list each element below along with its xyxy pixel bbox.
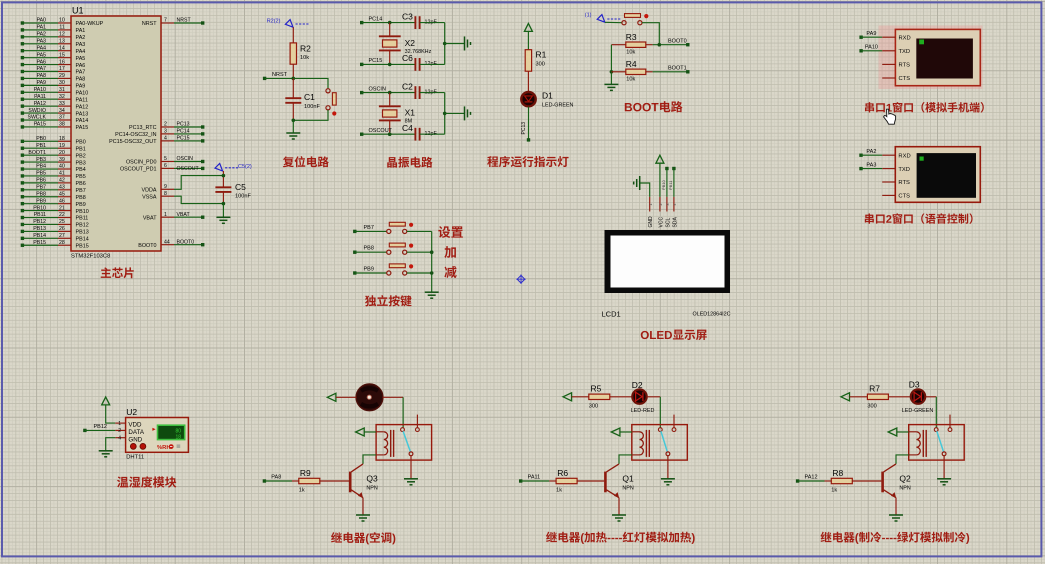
svg-text:1k: 1k — [831, 487, 837, 493]
svg-text:PB9: PB9 — [364, 266, 374, 272]
svg-text:PA11: PA11 — [528, 475, 541, 481]
svg-text:OSCIN: OSCIN — [369, 86, 386, 92]
wire coil to Q1 collector — [619, 455, 632, 464]
svg-text:PA4: PA4 — [37, 45, 47, 51]
svg-text:PB12: PB12 — [76, 223, 89, 229]
svg-text:2: 2 — [118, 428, 121, 434]
pin RTS stub — [882, 63, 895, 65]
wire rail to ground — [445, 112, 465, 114]
junction VDDA-C5 — [222, 174, 226, 178]
wire D1 to PC13 — [528, 107, 530, 140]
svg-text:PB9: PB9 — [36, 198, 46, 204]
svg-text:C1: C1 — [304, 92, 315, 102]
crystal X2 32.768KHz — [379, 23, 432, 65]
pin TXD stub — [882, 168, 895, 170]
virtual terminal 串口2 frame — [895, 147, 980, 203]
selection highlight — [879, 26, 983, 90]
label 温湿度模块 — [117, 477, 128, 488]
svg-text:28: 28 — [59, 240, 65, 246]
svg-text:PA10: PA10 — [865, 45, 878, 51]
svg-text:PB10: PB10 — [661, 179, 666, 190]
pin SCL OLED — [665, 197, 671, 228]
svg-text:LED-GREEN: LED-GREEN — [542, 103, 574, 109]
push button BOOT0 — [622, 21, 626, 25]
pin PB15 (28) — [21, 240, 89, 250]
ground Q3 — [356, 514, 370, 516]
wire arrow to motor — [336, 396, 356, 398]
IC U1 STM32F103C8 body — [71, 16, 161, 251]
node BOOT1 terminal — [668, 65, 690, 73]
svg-text:29: 29 — [59, 73, 65, 79]
relay RL2 coil — [632, 430, 650, 457]
label 晶振电路 — [387, 157, 397, 167]
svg-text:Q3: Q3 — [366, 474, 378, 484]
svg-text:PA9: PA9 — [76, 84, 86, 90]
relay RL3 box — [909, 425, 965, 461]
svg-text:PC14: PC14 — [369, 16, 383, 22]
label 加 — [444, 246, 456, 258]
node SDA terminal — [672, 167, 675, 170]
wire PC14 row — [362, 22, 416, 24]
svg-text:PA7: PA7 — [76, 70, 86, 76]
junction OSCIN — [388, 91, 392, 95]
svg-text:18: 18 — [59, 136, 65, 142]
svg-text:PA4: PA4 — [76, 49, 86, 55]
ground reset — [286, 132, 300, 134]
power arrow DHT11 — [102, 397, 110, 405]
node PC13 terminal — [527, 138, 530, 141]
svg-text:TXD: TXD — [898, 167, 910, 173]
svg-text:RXD: RXD — [898, 153, 910, 159]
svg-text:RTS: RTS — [898, 180, 910, 186]
svg-text:TXD: TXD — [899, 49, 911, 55]
ground C5 — [216, 216, 230, 218]
pin RTS stub — [882, 181, 895, 183]
pin PA5 (15) — [21, 52, 86, 62]
svg-text:(1): (1) — [585, 13, 592, 19]
pin PB11 (22) — [21, 212, 89, 222]
wire probe to button — [605, 21, 622, 23]
svg-text:45: 45 — [59, 191, 65, 197]
svg-text:PC15: PC15 — [369, 58, 383, 64]
motor terminal arrow — [327, 393, 336, 401]
node PB9 terminal — [353, 266, 387, 274]
svg-text:DHT11: DHT11 — [126, 454, 144, 460]
svg-text:OSCOUT: OSCOUT — [177, 166, 200, 172]
wire Q3 emitter to ground — [362, 498, 364, 515]
junction OSCOUT — [388, 132, 392, 136]
mouse cursor — [884, 109, 896, 124]
transistor Q3 NPN — [350, 464, 378, 498]
pin PC15 (4) — [109, 136, 204, 146]
svg-text:1: 1 — [649, 204, 653, 206]
resistor R5 300 — [572, 384, 632, 410]
svg-text:PB8: PB8 — [364, 246, 374, 252]
svg-text:NPN: NPN — [899, 486, 910, 492]
svg-text:BOOT0: BOOT0 — [177, 239, 195, 245]
node SCL terminal — [665, 167, 668, 170]
pin PB13 (26) — [21, 226, 89, 236]
wire motor to relay — [383, 396, 403, 398]
relay RL1 coil — [376, 430, 394, 457]
origin marker — [516, 274, 526, 284]
node BOOT0 terminal — [668, 38, 690, 46]
svg-text:2: 2 — [659, 204, 663, 206]
svg-text:BOOT1: BOOT1 — [668, 65, 687, 71]
wire GND — [640, 183, 650, 197]
svg-text:RTS: RTS — [899, 63, 911, 69]
svg-text:10: 10 — [59, 18, 65, 24]
svg-text:5: 5 — [164, 156, 167, 162]
resistor R7 300 — [850, 384, 911, 410]
wire D3 to relay — [926, 396, 937, 398]
svg-text:PA13: PA13 — [76, 111, 89, 117]
resistor R6 1k — [549, 468, 604, 494]
svg-text:R4: R4 — [626, 59, 637, 69]
svg-text:PA2: PA2 — [37, 32, 47, 38]
svg-text:PB14: PB14 — [76, 237, 89, 243]
relay RL3 contacts — [934, 415, 952, 456]
virtual probe R2(2) — [267, 19, 310, 28]
pin OSCOUT (6) — [120, 163, 204, 173]
svg-text:40: 40 — [59, 164, 65, 170]
svg-text:PC14: PC14 — [177, 129, 190, 135]
svg-text:PA5: PA5 — [37, 52, 47, 58]
svg-text:VCC: VCC — [658, 217, 664, 228]
node PA11 terminal — [519, 475, 549, 483]
display LCD1 OLED128642C — [602, 230, 731, 319]
pin PA0 (10) — [21, 18, 104, 28]
svg-text:D2: D2 — [632, 380, 643, 390]
svg-text:4: 4 — [164, 136, 167, 142]
svg-text:PB8: PB8 — [76, 195, 86, 201]
wire button to C1 — [293, 110, 328, 120]
svg-text:PB15: PB15 — [33, 240, 46, 246]
svg-text:18: 18 — [175, 435, 181, 441]
wire R4 to BOOT1 — [653, 71, 688, 73]
label 程序运行指示灯 — [487, 156, 498, 167]
pin GND OLED — [648, 197, 654, 228]
wire R1 to D1 — [527, 71, 529, 91]
pin VCC OLED — [658, 197, 664, 228]
wire OSCOUT row — [362, 133, 416, 135]
LED D1 LED-GREEN — [521, 91, 573, 109]
pin PA2 (12) — [21, 32, 86, 42]
svg-text:PB12: PB12 — [33, 219, 46, 225]
wire SDA — [673, 169, 675, 197]
svg-text:PA5: PA5 — [76, 56, 86, 62]
svg-text:PB9: PB9 — [76, 202, 86, 208]
svg-text:13: 13 — [59, 38, 65, 44]
relay RL2 contacts — [658, 415, 676, 456]
svg-text:PB5: PB5 — [76, 174, 86, 180]
svg-text:2: 2 — [164, 122, 167, 128]
ground Q2 — [889, 514, 903, 516]
svg-text:46: 46 — [59, 198, 65, 204]
svg-text:U2: U2 — [126, 407, 137, 417]
svg-text:PA15: PA15 — [76, 125, 89, 131]
svg-text:NPN: NPN — [366, 486, 377, 492]
node OSCOUT terminal — [360, 128, 393, 136]
svg-text:1k: 1k — [299, 487, 305, 493]
junction PB8 — [430, 250, 434, 254]
label 继电器(空调) — [331, 532, 342, 542]
node NRST terminal — [263, 72, 293, 80]
svg-text:19: 19 — [59, 143, 65, 149]
svg-text:PA12: PA12 — [34, 101, 46, 107]
wire C4 to rail — [420, 133, 445, 135]
svg-text:X1: X1 — [405, 108, 416, 118]
junction rail — [443, 42, 447, 46]
svg-text:PA9: PA9 — [37, 80, 47, 86]
svg-text:LED-RED: LED-RED — [631, 408, 655, 414]
svg-text:X2: X2 — [405, 38, 416, 48]
node PC14 terminal — [360, 16, 382, 24]
junction rail — [443, 112, 447, 116]
power arrow VCC — [524, 23, 532, 31]
node PA3 terminal — [859, 162, 882, 170]
svg-text:BOOT0: BOOT0 — [138, 243, 156, 249]
wire power to R1 — [527, 31, 529, 49]
ground relay RL3 — [937, 478, 951, 480]
wire button to BOOT0 net — [642, 23, 659, 45]
svg-text:PA9: PA9 — [866, 31, 876, 37]
svg-text:100nF: 100nF — [304, 104, 320, 110]
svg-text:GND: GND — [648, 216, 654, 228]
svg-text:PB7: PB7 — [364, 225, 374, 231]
svg-text:PB3: PB3 — [76, 160, 86, 166]
pin PA8 (29) — [21, 73, 86, 83]
wire VCC — [659, 163, 661, 197]
wire PB7 to rail — [407, 230, 432, 232]
svg-text:U1: U1 — [72, 6, 84, 16]
capacitor C4 12pF — [402, 123, 437, 141]
svg-text:25: 25 — [59, 219, 65, 225]
svg-text:27: 27 — [59, 233, 65, 239]
wire PC15 row — [362, 63, 416, 65]
svg-text:PA14: PA14 — [76, 118, 89, 124]
svg-text:PA11: PA11 — [34, 94, 46, 100]
wire relay common to ground — [667, 456, 669, 479]
pin PB10 (21) — [21, 205, 89, 215]
ground crystal — [464, 37, 466, 51]
svg-text:NRST: NRST — [272, 72, 288, 78]
wire C2 to rail — [420, 92, 445, 94]
svg-text:30: 30 — [59, 80, 65, 86]
power arrow OLED VCC — [656, 155, 664, 163]
svg-text:SWCLK: SWCLK — [28, 115, 47, 121]
push button PB8 — [387, 250, 391, 254]
wire NRST to button — [293, 78, 328, 88]
label 串口2窗口（语音控制） — [865, 213, 874, 223]
svg-text:14: 14 — [59, 45, 65, 51]
svg-text:1: 1 — [164, 212, 167, 218]
svg-text:PA3: PA3 — [866, 162, 876, 168]
relay RL3 coil — [909, 430, 927, 457]
svg-text:PB2: PB2 — [76, 153, 86, 159]
svg-text:300: 300 — [589, 403, 598, 409]
svg-text:10k: 10k — [300, 55, 309, 61]
svg-text:15: 15 — [59, 52, 65, 58]
svg-text:C6: C6 — [402, 53, 413, 63]
svg-text:PB6: PB6 — [36, 178, 46, 184]
junction PC14 — [388, 21, 392, 25]
ground crystal — [464, 106, 466, 120]
pin PB5 (41) — [21, 171, 86, 181]
pin BOOT0 (44) — [138, 239, 204, 249]
label OLED显示屏 — [641, 331, 649, 339]
svg-text:R9: R9 — [300, 468, 311, 478]
pin PA9 (30) — [21, 80, 86, 90]
svg-text:33: 33 — [59, 101, 65, 107]
wire right rail — [444, 93, 446, 135]
label 独立按键 — [365, 295, 376, 306]
ground keys — [425, 291, 439, 293]
svg-text:PB11: PB11 — [668, 180, 673, 190]
wire arrow to coil — [364, 431, 376, 433]
svg-text:8: 8 — [164, 191, 167, 197]
svg-text:C3: C3 — [402, 11, 413, 21]
node OSCIN terminal — [360, 86, 386, 94]
svg-text:OSCIN: OSCIN — [177, 156, 194, 162]
motor M1 — [356, 384, 383, 411]
junction C1 bottom — [292, 119, 296, 123]
svg-text:4: 4 — [673, 204, 677, 206]
svg-text:44: 44 — [164, 239, 170, 245]
svg-text:BOOT0: BOOT0 — [668, 38, 687, 44]
svg-text:PB0: PB0 — [36, 136, 46, 142]
virtual probe C5(2) — [215, 163, 252, 171]
svg-text:37: 37 — [59, 115, 65, 121]
pin BOOT1 (20) — [21, 150, 86, 160]
node PA10 terminal — [859, 45, 882, 53]
svg-text:PB7: PB7 — [76, 188, 86, 194]
wire C5 to ground — [222, 204, 224, 217]
svg-text:PA15: PA15 — [34, 122, 46, 128]
svg-text:PB11: PB11 — [34, 212, 46, 218]
coil terminal arrow — [611, 428, 620, 436]
pin PB3 (39) — [21, 157, 86, 167]
pin PB7 (43) — [21, 185, 86, 195]
svg-text:CTS: CTS — [898, 194, 910, 200]
junction R4 — [610, 70, 614, 74]
node PB7 terminal — [353, 225, 387, 233]
svg-text:43: 43 — [59, 185, 65, 191]
svg-text:31: 31 — [59, 87, 65, 93]
pin PA10 (31) — [21, 87, 89, 97]
wire OSCIN row — [362, 92, 416, 94]
svg-text:PB14: PB14 — [33, 233, 46, 239]
svg-text:PB12: PB12 — [94, 424, 107, 430]
pin CTS stub — [882, 77, 895, 79]
pin PB6 (42) — [21, 178, 86, 188]
svg-text:DATA: DATA — [128, 429, 144, 436]
pin RXD stub — [882, 154, 895, 156]
pin PA7 (17) — [21, 66, 86, 76]
svg-text:PB13: PB13 — [76, 230, 89, 236]
svg-text:21: 21 — [59, 205, 65, 211]
svg-text:D3: D3 — [909, 380, 920, 390]
wire relay common to ground — [410, 456, 412, 479]
pin CTS stub — [882, 194, 895, 196]
node PA9 terminal — [859, 31, 882, 39]
pin VSSA (8) — [142, 191, 223, 204]
wire left rail — [610, 45, 612, 84]
svg-text:26: 26 — [59, 226, 65, 232]
svg-text:LCD1: LCD1 — [602, 310, 621, 319]
svg-text:PA12: PA12 — [76, 104, 89, 110]
svg-text:PB8: PB8 — [36, 191, 46, 197]
svg-text:PB6: PB6 — [76, 181, 86, 187]
resistor R2 10k — [290, 27, 311, 78]
svg-text:BOOT1: BOOT1 — [28, 150, 46, 156]
junction PC15 — [388, 63, 392, 67]
svg-text:STM32F103C8: STM32F103C8 — [71, 254, 110, 260]
svg-text:C5: C5 — [235, 182, 246, 192]
relay RL2 box — [632, 425, 688, 461]
label 设置 — [438, 226, 450, 238]
svg-text:C4: C4 — [402, 123, 413, 133]
svg-text:16: 16 — [59, 59, 65, 65]
svg-text:OSCIN_PD0: OSCIN_PD0 — [126, 160, 157, 166]
ground relay RL2 — [661, 478, 675, 480]
node PA2 terminal — [859, 149, 882, 157]
svg-text:C5(2): C5(2) — [238, 164, 252, 170]
svg-text:R2(2): R2(2) — [267, 19, 281, 25]
svg-text:PB11: PB11 — [76, 216, 89, 222]
node PB12 terminal — [83, 424, 115, 432]
svg-text:PA6: PA6 — [76, 63, 86, 69]
svg-text:34: 34 — [59, 108, 65, 114]
push button PB7 — [387, 229, 391, 233]
svg-text:NRST: NRST — [142, 21, 157, 27]
pin VBAT (1) — [143, 212, 205, 222]
svg-text:PA6: PA6 — [37, 59, 47, 65]
svg-text:22: 22 — [59, 212, 65, 218]
terminal arrow R5 — [563, 393, 572, 401]
svg-text:PB13: PB13 — [33, 226, 46, 232]
svg-text:SWDIO: SWDIO — [28, 108, 46, 114]
capacitor C5 100nF — [215, 171, 251, 204]
pin PA12 (33) — [21, 101, 89, 111]
svg-text:41: 41 — [59, 171, 65, 177]
label 主芯片 — [101, 267, 111, 278]
pin PA3 (13) — [21, 38, 86, 48]
svg-text:39: 39 — [59, 157, 65, 163]
pin PB12 (25) — [21, 219, 89, 229]
wire coil to Q3 collector — [363, 455, 376, 464]
svg-text:1k: 1k — [556, 487, 562, 493]
svg-text:PA7: PA7 — [37, 66, 47, 72]
pin 2 DHT11 — [115, 428, 125, 434]
wire PB9 to rail — [407, 272, 432, 274]
svg-text:4: 4 — [118, 436, 121, 442]
svg-text:PA0: PA0 — [37, 18, 47, 24]
node PB8 terminal — [353, 246, 387, 254]
capacitor C1 100nF — [285, 78, 320, 120]
svg-text:PA10: PA10 — [76, 91, 89, 97]
pin PA11 (32) — [21, 94, 88, 104]
resistor R8 1k — [825, 468, 882, 494]
wire right rail — [444, 23, 446, 65]
node PC15 terminal — [360, 58, 382, 66]
svg-text:PA1: PA1 — [37, 25, 47, 31]
capacitor C3 12pF — [402, 11, 437, 29]
LED D2 LED-RED — [631, 380, 655, 414]
svg-text:LED-GREEN: LED-GREEN — [902, 408, 934, 414]
wire D2 to relay — [647, 396, 660, 398]
label 复位电路 — [283, 156, 294, 167]
